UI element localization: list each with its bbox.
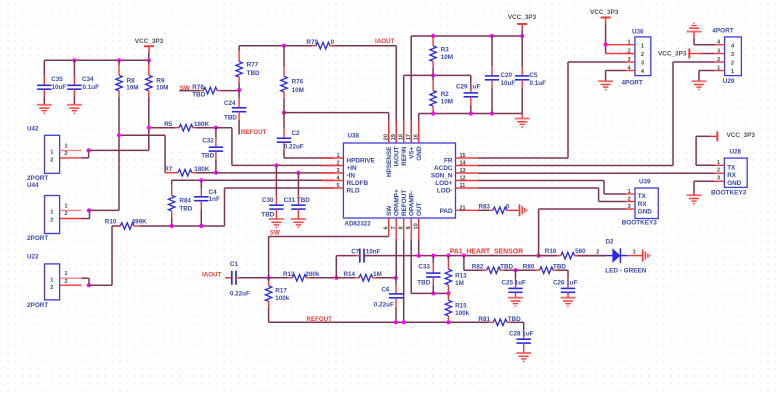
wire VCC stem to rail xyxy=(148,53,150,60)
svg-text:560: 560 xyxy=(575,248,586,255)
svg-text:499K: 499K xyxy=(132,218,148,225)
node R82-R80-C25 xyxy=(513,268,517,272)
svg-text:2: 2 xyxy=(64,151,67,157)
svg-text:12: 12 xyxy=(460,176,466,182)
svg-text:TBD: TBD xyxy=(179,205,192,212)
svg-text:1: 1 xyxy=(50,210,53,216)
capacitor C25 xyxy=(501,270,526,297)
svg-text:TX: TX xyxy=(638,193,647,200)
svg-text:11: 11 xyxy=(460,183,466,189)
svg-text:BOOTKEY3: BOOTKEY3 xyxy=(711,189,747,196)
svg-text:17: 17 xyxy=(406,134,412,140)
svg-text:10M: 10M xyxy=(292,87,304,94)
capacitor C26 xyxy=(553,270,578,297)
svg-text:18: 18 xyxy=(399,134,405,140)
svg-text:C32: C32 xyxy=(202,138,214,145)
ground right of R83 xyxy=(520,204,527,216)
resistor R2 xyxy=(430,75,453,113)
node rail-R76 xyxy=(282,44,286,48)
node U22 pins xyxy=(87,283,91,287)
svg-text:C20: C20 xyxy=(501,72,513,79)
svg-text:RLD: RLD xyxy=(347,187,361,194)
wire +IN jog xyxy=(216,128,334,166)
svg-text:2: 2 xyxy=(641,52,644,58)
svg-text:21: 21 xyxy=(460,205,466,211)
wire U29.4 to ground xyxy=(694,44,715,46)
svg-text:R84: R84 xyxy=(179,197,191,204)
svg-text:2PORT: 2PORT xyxy=(27,302,48,309)
node R12-R14-C7 xyxy=(334,276,338,280)
svg-text:1nF: 1nF xyxy=(209,196,220,203)
svg-text:C24: C24 xyxy=(224,100,236,107)
net label PA1_HEART_SENSOR xyxy=(450,248,523,255)
ground below U36 xyxy=(598,81,613,89)
svg-text:R15: R15 xyxy=(455,303,467,310)
svg-text:2: 2 xyxy=(50,217,53,223)
wire SDN_N net xyxy=(478,172,715,174)
capacitor C35 xyxy=(37,60,66,104)
svg-text:0.22uF: 0.22uF xyxy=(374,301,394,308)
node U44 pins xyxy=(87,208,91,212)
svg-text:1: 1 xyxy=(628,189,631,195)
wire R8 column down xyxy=(118,97,120,211)
wire U28 GND to ground xyxy=(694,181,715,195)
wire HPSENSE row xyxy=(284,113,389,143)
resistor R7 xyxy=(164,166,209,176)
svg-text:REFOUT: REFOUT xyxy=(241,129,267,136)
svg-text:TBD: TBD xyxy=(553,263,566,270)
svg-text:1: 1 xyxy=(731,69,734,75)
wire IAOUT to pin19 xyxy=(395,46,397,143)
svg-text:1: 1 xyxy=(336,153,339,159)
node R10-C4 xyxy=(199,224,203,228)
svg-text:4PORT: 4PORT xyxy=(712,27,733,34)
svg-text:1: 1 xyxy=(50,150,53,156)
svg-text:0: 0 xyxy=(331,39,335,46)
node row-C33 xyxy=(431,254,435,258)
svg-text:2: 2 xyxy=(64,211,67,217)
net label IAOUT (lower) xyxy=(202,272,221,279)
svg-text:R14: R14 xyxy=(344,271,356,278)
resistor R3 xyxy=(430,36,453,75)
svg-text:R12: R12 xyxy=(283,271,295,278)
wire LOD+ net xyxy=(478,181,626,195)
svg-text:HPSENSE: HPSENSE xyxy=(386,146,393,177)
capacitor C1 xyxy=(225,261,268,298)
svg-text:SDN_N: SDN_N xyxy=(431,173,453,180)
svg-text:3: 3 xyxy=(641,61,644,67)
resistor R8 xyxy=(116,60,139,96)
node rail-C34 xyxy=(72,58,76,62)
power symbol VCC_3P3 (U29) xyxy=(658,49,702,59)
svg-text:0.22uF: 0.22uF xyxy=(230,291,250,298)
wire OPAMP- column xyxy=(411,240,448,294)
wire VS+ rail xyxy=(411,31,522,144)
node R13-R15 xyxy=(446,291,450,295)
connector U42 xyxy=(27,126,82,183)
node R3-R2-REFIN xyxy=(431,73,435,77)
net label REFOUT (C24) xyxy=(241,129,267,136)
capacitor C29 xyxy=(456,75,481,113)
svg-text:REFOUT: REFOUT xyxy=(401,190,408,216)
node R14-OPAMP+-C6 xyxy=(394,276,398,280)
wire IAOUT top rail xyxy=(239,45,396,47)
capacitor C2 xyxy=(277,113,304,158)
svg-text:OPAMP-: OPAMP- xyxy=(408,191,415,216)
ground below C31 xyxy=(291,219,306,227)
node R5-R9-U42 xyxy=(147,126,151,130)
wire VCC to U28.TX xyxy=(696,136,715,165)
wire U44 to R8 column xyxy=(89,209,119,211)
wire SW net xyxy=(269,237,389,278)
svg-text:R80: R80 xyxy=(523,263,535,270)
ground below GND rail xyxy=(515,114,530,127)
svg-text:TBD: TBD xyxy=(224,115,237,122)
svg-text:15: 15 xyxy=(460,153,466,159)
svg-text:C33: C33 xyxy=(418,264,430,271)
svg-text:2: 2 xyxy=(717,168,720,174)
resistor R17 xyxy=(265,278,289,323)
resistor R77 xyxy=(236,46,260,90)
node refout-C6 xyxy=(394,320,398,324)
U38 top pins 16-20 xyxy=(384,121,423,177)
svg-text:0.1uF: 0.1uF xyxy=(83,84,100,91)
svg-text:10: 10 xyxy=(414,223,420,229)
svg-text:1: 1 xyxy=(64,271,67,277)
svg-text:8: 8 xyxy=(399,226,405,229)
svg-text:U44: U44 xyxy=(27,182,39,189)
resistor R15 xyxy=(445,293,469,322)
ground below U28 xyxy=(687,195,702,203)
svg-text:FR: FR xyxy=(444,158,453,165)
wire OUT column xyxy=(418,240,420,256)
node gnd-R2 xyxy=(431,111,435,115)
diode D2 (LED) xyxy=(596,238,647,274)
power symbol VCC_3P3 (top-left) xyxy=(135,38,164,53)
svg-text:1M: 1M xyxy=(455,280,464,287)
node rail-R9 xyxy=(147,58,151,62)
svg-text:2PORT: 2PORT xyxy=(27,235,48,242)
capacitor C34 xyxy=(67,60,99,104)
net label IAOUT (top) xyxy=(375,38,394,45)
wire U36.4 to ground xyxy=(606,71,626,82)
node refout-pin8 xyxy=(402,320,406,324)
svg-text:R77: R77 xyxy=(247,61,259,68)
svg-text:9: 9 xyxy=(406,226,412,229)
power symbol VCC_3P3 (U28) xyxy=(710,131,755,141)
svg-text:SW: SW xyxy=(386,205,393,216)
svg-text:10nF: 10nF xyxy=(366,248,381,255)
ground below C30 xyxy=(269,219,284,227)
svg-text:+IN: +IN xyxy=(347,165,358,172)
wire U42 to R9/R5 node xyxy=(89,128,149,151)
node SW-C1-R12-R17 xyxy=(267,276,271,280)
svg-text:GND: GND xyxy=(416,146,423,161)
U38 bottom pins 6-10 xyxy=(384,189,423,239)
svg-text:2: 2 xyxy=(731,61,734,67)
connector U28 xyxy=(711,149,747,197)
wire RLD riser xyxy=(224,188,226,226)
wire -IN row xyxy=(216,172,334,174)
svg-text:2: 2 xyxy=(50,157,53,163)
svg-text:14: 14 xyxy=(460,161,467,167)
capacitor C4 xyxy=(194,180,220,226)
svg-text:TBD: TBD xyxy=(261,212,274,219)
node row-R82 xyxy=(462,254,466,258)
svg-text:U42: U42 xyxy=(27,126,39,133)
node R5-C32 xyxy=(214,126,218,130)
svg-text:200k: 200k xyxy=(305,271,320,278)
wire C7 branch riser xyxy=(336,256,356,278)
node rail-C20 xyxy=(490,34,494,38)
node gnd-C20 xyxy=(490,111,494,115)
svg-text:1: 1 xyxy=(627,40,630,46)
U38 right pins 11-15 xyxy=(431,153,478,195)
svg-text:R16: R16 xyxy=(545,248,557,255)
svg-text:3: 3 xyxy=(717,48,720,54)
ground below C35 xyxy=(37,105,52,113)
wire VCC to U29.3 xyxy=(702,53,715,55)
resistor R10 xyxy=(105,218,147,229)
capacitor C6 xyxy=(374,278,403,323)
wire REFOUT row xyxy=(269,321,490,323)
resistor R12 xyxy=(269,271,337,281)
svg-text:1: 1 xyxy=(64,143,67,149)
svg-text:REFIN: REFIN xyxy=(401,146,408,166)
svg-text:TX: TX xyxy=(727,165,736,172)
svg-text:R78: R78 xyxy=(192,84,204,91)
svg-text:C7: C7 xyxy=(351,248,360,255)
capacitor C28 xyxy=(509,322,534,353)
node rail-R3 xyxy=(431,34,435,38)
svg-text:R79: R79 xyxy=(306,39,318,46)
svg-text:10M: 10M xyxy=(441,54,453,61)
svg-text:VS+: VS+ xyxy=(408,146,415,159)
svg-text:RLDFB: RLDFB xyxy=(347,180,369,187)
svg-text:10M: 10M xyxy=(156,84,168,91)
svg-text:IAOUT: IAOUT xyxy=(375,38,394,45)
svg-text:10uF: 10uF xyxy=(52,84,67,91)
svg-text:TBD: TBD xyxy=(500,263,513,270)
wire C2 to HPDRIVE xyxy=(284,157,334,159)
resistor R83 xyxy=(478,204,519,214)
svg-text:100k: 100k xyxy=(455,310,470,317)
resistor R5 xyxy=(149,121,210,131)
svg-text:VCC_3P3: VCC_3P3 xyxy=(727,132,756,139)
svg-text:LOD+: LOD+ xyxy=(435,180,452,187)
node U36 pin1 xyxy=(604,43,608,47)
wire VCC to U36 xyxy=(605,24,607,54)
svg-text:VCC_3P3: VCC_3P3 xyxy=(508,14,537,21)
resistor R82 xyxy=(472,263,516,273)
wire FR net xyxy=(478,62,626,158)
svg-text:2: 2 xyxy=(596,250,599,256)
svg-text:U39: U39 xyxy=(639,179,651,186)
U38 left pins 1-5 xyxy=(322,153,376,194)
svg-text:VCC_3P3: VCC_3P3 xyxy=(590,9,619,16)
wire R10 row xyxy=(140,225,225,227)
svg-text:BOOTKEY3: BOOTKEY3 xyxy=(622,220,658,227)
ground below C34 xyxy=(67,105,82,113)
svg-text:R9: R9 xyxy=(156,77,165,84)
svg-text:GND: GND xyxy=(727,180,741,187)
capacitor C33 xyxy=(417,256,440,294)
svg-text:100k: 100k xyxy=(275,295,290,302)
connector U22 xyxy=(27,254,82,310)
node -IN C31 tap xyxy=(296,171,300,175)
svg-text:TBD: TBD xyxy=(508,316,521,323)
power symbol VCC_3P3 (U36) xyxy=(590,9,619,24)
svg-text:10uF: 10uF xyxy=(501,80,516,87)
svg-text:U36: U36 xyxy=(632,28,644,35)
svg-text:C2: C2 xyxy=(292,130,301,137)
svg-text:LED - GREEN: LED - GREEN xyxy=(605,268,647,275)
svg-text:2: 2 xyxy=(717,57,720,63)
svg-text:PA1_HEART_SENSOR: PA1_HEART_SENSOR xyxy=(450,248,523,255)
svg-text:C35: C35 xyxy=(51,76,63,83)
wire U29.1 to ground xyxy=(699,71,715,82)
svg-text:3: 3 xyxy=(717,176,720,182)
connector U36 xyxy=(606,28,651,86)
svg-text:2: 2 xyxy=(628,196,631,202)
connector U29 xyxy=(715,37,742,85)
svg-text:C30: C30 xyxy=(262,197,274,204)
node U42 pins xyxy=(87,148,91,152)
wire U44.2 jog xyxy=(82,210,90,218)
svg-text:R3: R3 xyxy=(441,46,450,53)
wire top-left VCC rail xyxy=(44,59,149,61)
svg-text:R5: R5 xyxy=(164,121,173,128)
svg-text:C5: C5 xyxy=(530,72,539,79)
ground below U29.1 xyxy=(692,81,707,89)
node R8col-R7 xyxy=(117,133,121,137)
capacitor C31 xyxy=(284,173,311,219)
svg-text:C1: C1 xyxy=(230,261,239,268)
resistor R14 xyxy=(336,271,396,281)
svg-text:2: 2 xyxy=(50,285,53,291)
net label SW (lower) xyxy=(270,230,280,237)
capacitor C32 xyxy=(201,128,223,173)
wire U39 GND to PA1 row xyxy=(539,209,626,256)
svg-text:3: 3 xyxy=(336,168,339,174)
wire U22 to R10 xyxy=(89,226,120,285)
svg-text:4PORT: 4PORT xyxy=(622,79,643,86)
svg-text:PAD: PAD xyxy=(440,208,453,215)
svg-text:C6: C6 xyxy=(381,286,390,293)
resistor R16 xyxy=(539,248,606,259)
node rail-R8 xyxy=(117,58,121,62)
svg-text:0: 0 xyxy=(506,204,510,211)
wire GND rail xyxy=(419,114,523,144)
ground right of D2 xyxy=(643,250,650,262)
wire R9 column down xyxy=(148,97,150,128)
svg-text:R10: R10 xyxy=(105,218,117,225)
svg-text:SW: SW xyxy=(270,230,280,237)
svg-text:LOD-: LOD- xyxy=(437,188,453,195)
svg-text:C28 1uF: C28 1uF xyxy=(509,331,534,338)
power symbol VCC_3P3 (top-mid) xyxy=(508,14,537,30)
capacitor C20 xyxy=(485,36,516,114)
svg-text:U38: U38 xyxy=(348,133,360,140)
svg-text:C31 TBD: C31 TBD xyxy=(284,197,311,204)
svg-text:7: 7 xyxy=(391,226,397,229)
svg-text:16: 16 xyxy=(414,134,420,140)
svg-text:R81: R81 xyxy=(478,316,490,323)
capacitor C30 xyxy=(261,165,283,218)
svg-text:1: 1 xyxy=(641,43,644,49)
wire LOD- net xyxy=(478,188,626,202)
node C4-RLDFB xyxy=(199,178,203,182)
svg-text:TBD: TBD xyxy=(201,152,214,159)
wire REFOUT column (pin8) xyxy=(403,240,405,323)
svg-text:OPAMP+: OPAMP+ xyxy=(393,189,400,216)
wire U42.2 jog xyxy=(82,150,89,158)
svg-text:1M: 1M xyxy=(373,271,382,278)
node C33 bottom xyxy=(431,291,435,295)
svg-text:AD82322: AD82322 xyxy=(345,220,372,227)
svg-text:ACDC: ACDC xyxy=(434,165,453,172)
svg-text:3: 3 xyxy=(628,204,631,210)
connector U44 xyxy=(27,182,82,242)
svg-text:IAOUT: IAOUT xyxy=(393,146,400,166)
svg-text:0.1uF: 0.1uF xyxy=(530,80,547,87)
op-amp U38 body xyxy=(343,133,455,228)
svg-text:C29 1uF: C29 1uF xyxy=(456,83,481,90)
svg-text:R82: R82 xyxy=(472,263,484,270)
svg-text:U22: U22 xyxy=(27,254,39,261)
svg-text:VCC_3P3: VCC_3P3 xyxy=(135,38,164,45)
ground below C25 xyxy=(508,298,523,306)
svg-text:D2: D2 xyxy=(606,238,615,245)
resistor R80 xyxy=(516,263,569,273)
resistor R84 xyxy=(169,180,193,226)
node +IN C30 tap xyxy=(274,163,278,167)
svg-text:R17: R17 xyxy=(275,287,287,294)
svg-text:HPDRIVE: HPDRIVE xyxy=(347,157,376,164)
node R76-C2-HPSENSE xyxy=(282,111,286,115)
svg-text:RX: RX xyxy=(727,172,737,179)
resistor R9 xyxy=(146,60,169,96)
capacitor C24 xyxy=(224,90,246,135)
svg-text:1: 1 xyxy=(50,277,53,283)
ground below C26 xyxy=(561,298,576,306)
svg-text:GND: GND xyxy=(638,209,652,216)
svg-text:IAOUT: IAOUT xyxy=(202,272,221,279)
svg-text:1: 1 xyxy=(633,250,636,256)
svg-text:R76: R76 xyxy=(292,78,304,85)
svg-text:6: 6 xyxy=(384,226,390,229)
svg-text:19: 19 xyxy=(391,134,397,140)
svg-text:1: 1 xyxy=(64,203,67,209)
svg-text:TBD: TBD xyxy=(192,92,205,99)
svg-text:2: 2 xyxy=(627,48,630,54)
svg-text:1: 1 xyxy=(717,160,720,166)
node row-R13 xyxy=(446,254,450,258)
node row-R16-U39gnd xyxy=(537,254,541,258)
svg-text:5: 5 xyxy=(336,183,339,189)
node R10-R84 xyxy=(170,224,174,228)
svg-text:TBD: TBD xyxy=(417,280,430,287)
svg-text:C25 1uF: C25 1uF xyxy=(501,279,526,286)
net label SW (R78) xyxy=(180,85,190,92)
wire PA1_HEART_SENSOR row xyxy=(363,255,605,257)
node gnd-C29 xyxy=(469,111,473,115)
svg-text:2: 2 xyxy=(64,279,67,285)
wire R82 branch xyxy=(464,256,483,271)
wire OPAMP+ column xyxy=(395,240,397,278)
svg-text:C34: C34 xyxy=(82,76,94,83)
svg-text:R13: R13 xyxy=(455,272,467,279)
